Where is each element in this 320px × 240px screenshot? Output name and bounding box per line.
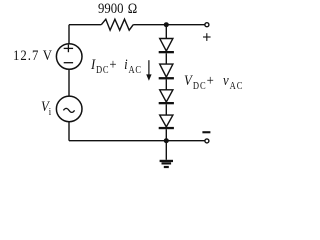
node junction dot bottom [164, 138, 169, 143]
wire left vertical lower [68, 122, 70, 141]
diode D4 triangle [160, 115, 173, 127]
diode D2 triangle [160, 64, 173, 77]
resistor R (9900 ohm) zigzag [101, 19, 133, 30]
diode D1 cathode bar [159, 51, 174, 53]
wire diode branch D1-D2 [165, 53, 167, 64]
wire diode branch bottom [165, 129, 167, 141]
ground bar 3 [164, 166, 169, 168]
terminal bottom open circle [205, 139, 209, 143]
label 12.7 V [13, 49, 53, 64]
wire left vertical upper [68, 25, 70, 45]
source Vi (AC) circle [56, 96, 82, 122]
diode D1 triangle [160, 39, 173, 52]
diode D3 cathode bar [159, 102, 174, 104]
ground bar 1 [160, 160, 173, 162]
ground stem [165, 141, 167, 160]
diode D4 cathode bar [159, 127, 174, 129]
label Vi [41, 100, 51, 115]
wire bottom horizontal [69, 140, 205, 142]
diode D2 cathode bar [159, 77, 174, 79]
wire diode branch D3-D4 [165, 104, 167, 115]
label VDC + vAC [184, 74, 244, 89]
current arrow shaft [148, 60, 150, 75]
label 9900 ohm [98, 2, 137, 17]
minus sign inside DC source [64, 62, 73, 64]
wire top-left horizontal [69, 24, 101, 26]
wire left vertical middle [68, 69, 70, 96]
plus sign inside DC source [64, 45, 73, 53]
wire diode branch top [165, 25, 167, 39]
terminal minus label [202, 131, 210, 133]
sine symbol inside AC source [63, 108, 74, 112]
diode D3 triangle [160, 90, 173, 102]
terminal top open circle [205, 23, 209, 27]
node junction dot top [164, 22, 169, 27]
terminal plus label [203, 33, 211, 41]
ground bar 2 [162, 162, 172, 164]
wire diode branch D2-D3 [165, 79, 167, 89]
wire top-right horizontal [133, 24, 204, 26]
label IDC + iAC [91, 58, 142, 73]
current arrow head [146, 74, 151, 80]
source V1 12.7 V (DC) circle [56, 44, 82, 70]
